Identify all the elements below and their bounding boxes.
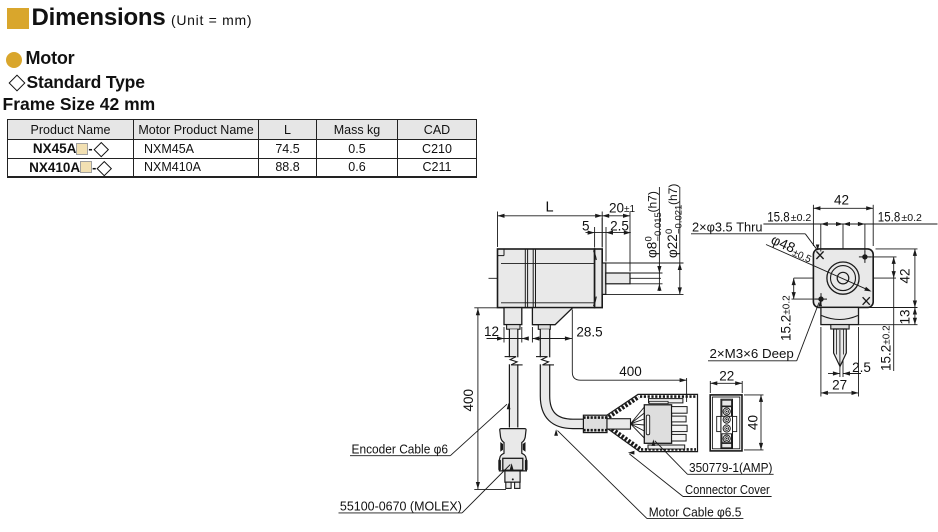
title block [7,8,29,29]
AMP housing (side view) [644,399,687,449]
product table [7,119,477,178]
svg-text:Encoder Cable φ6: Encoder Cable φ6 [352,441,449,456]
svg-text:350779-1(AMP): 350779-1(AMP) [689,460,773,475]
svg-text:φ80−0.015(h7): φ80−0.015(h7) [644,191,664,258]
dimension 400 horizontal (motor cable length) [572,310,686,403]
svg-text:Motor Cable φ6.5: Motor Cable φ6.5 [649,504,742,519]
svg-text:15.2±0.2: 15.2±0.2 [879,325,894,371]
break symbol on motor cable [536,357,554,365]
svg-text:2×φ3.5 Thru: 2×φ3.5 Thru [692,220,763,235]
mounting hole bottom-left (M3 tapped, dot) [815,293,827,305]
svg-text:15.8: 15.8 [878,210,901,225]
dimension 20±1 (shaft length) [602,200,635,271]
motor cable (vertical then bend to horizontal) [545,329,584,424]
dimension 15.8±0.2 left and right (hole offsets) [763,210,937,252]
motor flange (side view) [594,249,603,308]
front view horizontal centerline [794,277,896,279]
label 55100-0670 (MOLEX) with leader [339,463,514,513]
svg-text:2×M3×6 Deep: 2×M3×6 Deep [710,346,794,361]
motor cable boss (side view) [532,308,572,330]
dimension 28.5 (motor boss width) [532,325,602,343]
svg-text:400: 400 [619,364,642,379]
label 2x M3x6 Deep with leader [708,300,822,361]
label 350779-1(AMP) with leader [652,439,774,475]
motor cable thin section into cover [607,419,631,429]
dimension 27 (boss width front) [821,327,859,397]
svg-text:13: 13 [898,309,913,324]
svg-text:15.2±0.2: 15.2±0.2 [779,295,794,341]
dimension 5 (flange thickness) [582,218,631,247]
cable (front view, broken end) [834,329,847,377]
dimension 12 (encoder boss width) [484,324,529,342]
dimension 42 top (frame width) [813,193,873,246]
encoder cable (vertical) [509,329,519,427]
motor cable strain-relief collar [583,415,607,432]
svg-text:2.5: 2.5 [610,218,629,233]
svg-text:22: 22 [719,369,734,384]
connector pins (4) [722,407,732,444]
pilot boss phi22 (side view) [602,263,606,294]
svg-text:27: 27 [832,377,847,392]
svg-text:42: 42 [834,193,849,208]
dimension 15.2±0.2 left (centerline to hole) [779,278,819,341]
svg-text:55100-0670 (MOLEX): 55100-0670 (MOLEX) [340,499,462,514]
label phi48±0.5 with diagonal leader [766,231,872,293]
dimension 2.5 (pilot height) [602,218,629,262]
break symbol on encoder cable [505,357,523,365]
shaft phi8 (side view) [606,273,630,284]
svg-text:5: 5 [582,218,590,233]
mounting hole top-left (phi3.5 thru, X mark) [816,251,823,259]
cable exit boss (front view, 27 wide) [821,307,859,324]
connector cover (side view outline) [604,394,698,451]
shaft circle phi8 [837,272,849,284]
svg-text:±0.2: ±0.2 [791,213,812,224]
pilot circle phi22 [827,262,859,294]
encoder cable boss (side view) [504,308,522,330]
svg-text:L: L [545,199,553,215]
dimension 22 (connector width) [710,369,742,393]
cable collar (front view) [831,325,849,329]
label Motor Cable phi6.5 with leader [554,429,743,519]
Standard Type heading [9,75,26,92]
dimension 40 (connector height) [744,395,764,450]
label 2x phi3.5 Thru with leader [691,220,819,251]
mounting hole top-right (M3 tapped, dot) [859,251,871,263]
svg-text:φ220−0.021(h7): φ220−0.021(h7) [664,184,684,258]
front view vertical centerline [842,224,844,377]
svg-text:20: 20 [609,200,624,215]
dimension 15.2±0.2 right (hole to centerline) [869,257,897,371]
dimension L [498,199,603,247]
svg-text:±0.2: ±0.2 [901,213,922,224]
svg-text:12: 12 [484,324,499,339]
Motor heading [6,52,22,68]
svg-text:15.8: 15.8 [767,210,790,225]
dimension 2.5 (cable offset) [828,360,871,376]
inner circle [831,266,856,291]
svg-text:400: 400 [461,389,476,412]
dimension phi8 h7 (shaft dia) [631,187,665,291]
svg-text:Connector Cover: Connector Cover [685,482,770,497]
svg-text:40: 40 [746,415,761,430]
label Encoder Cable phi6 with leader [350,403,511,457]
dimension 400 vertical (encoder cable length) [461,308,506,490]
svg-text:28.5: 28.5 [576,325,602,340]
dimension 13 (boss height) [859,308,918,325]
AMP connector front view body [710,395,742,451]
dimension 42 right (frame height) [860,249,918,308]
svg-text:42: 42 [898,268,913,283]
svg-text:φ48±0.5: φ48±0.5 [768,231,816,266]
motor body (side view) M1 [498,249,595,308]
wire fan from cable to AMP housing [631,407,645,438]
mounting hole bottom-right (phi3.5 thru, X mark) [863,297,870,305]
svg-text:±1: ±1 [624,204,635,215]
connector 55100-0670 MOLEX (encoder cable end) [498,429,527,489]
motor front face (42x42 square) [813,249,873,308]
dimension phi22 h7 (pilot dia) [606,184,685,295]
svg-text:2.5: 2.5 [852,360,871,375]
wire: side-view horizontal centerline [489,277,662,279]
label Connector Cover with leader [628,451,772,497]
